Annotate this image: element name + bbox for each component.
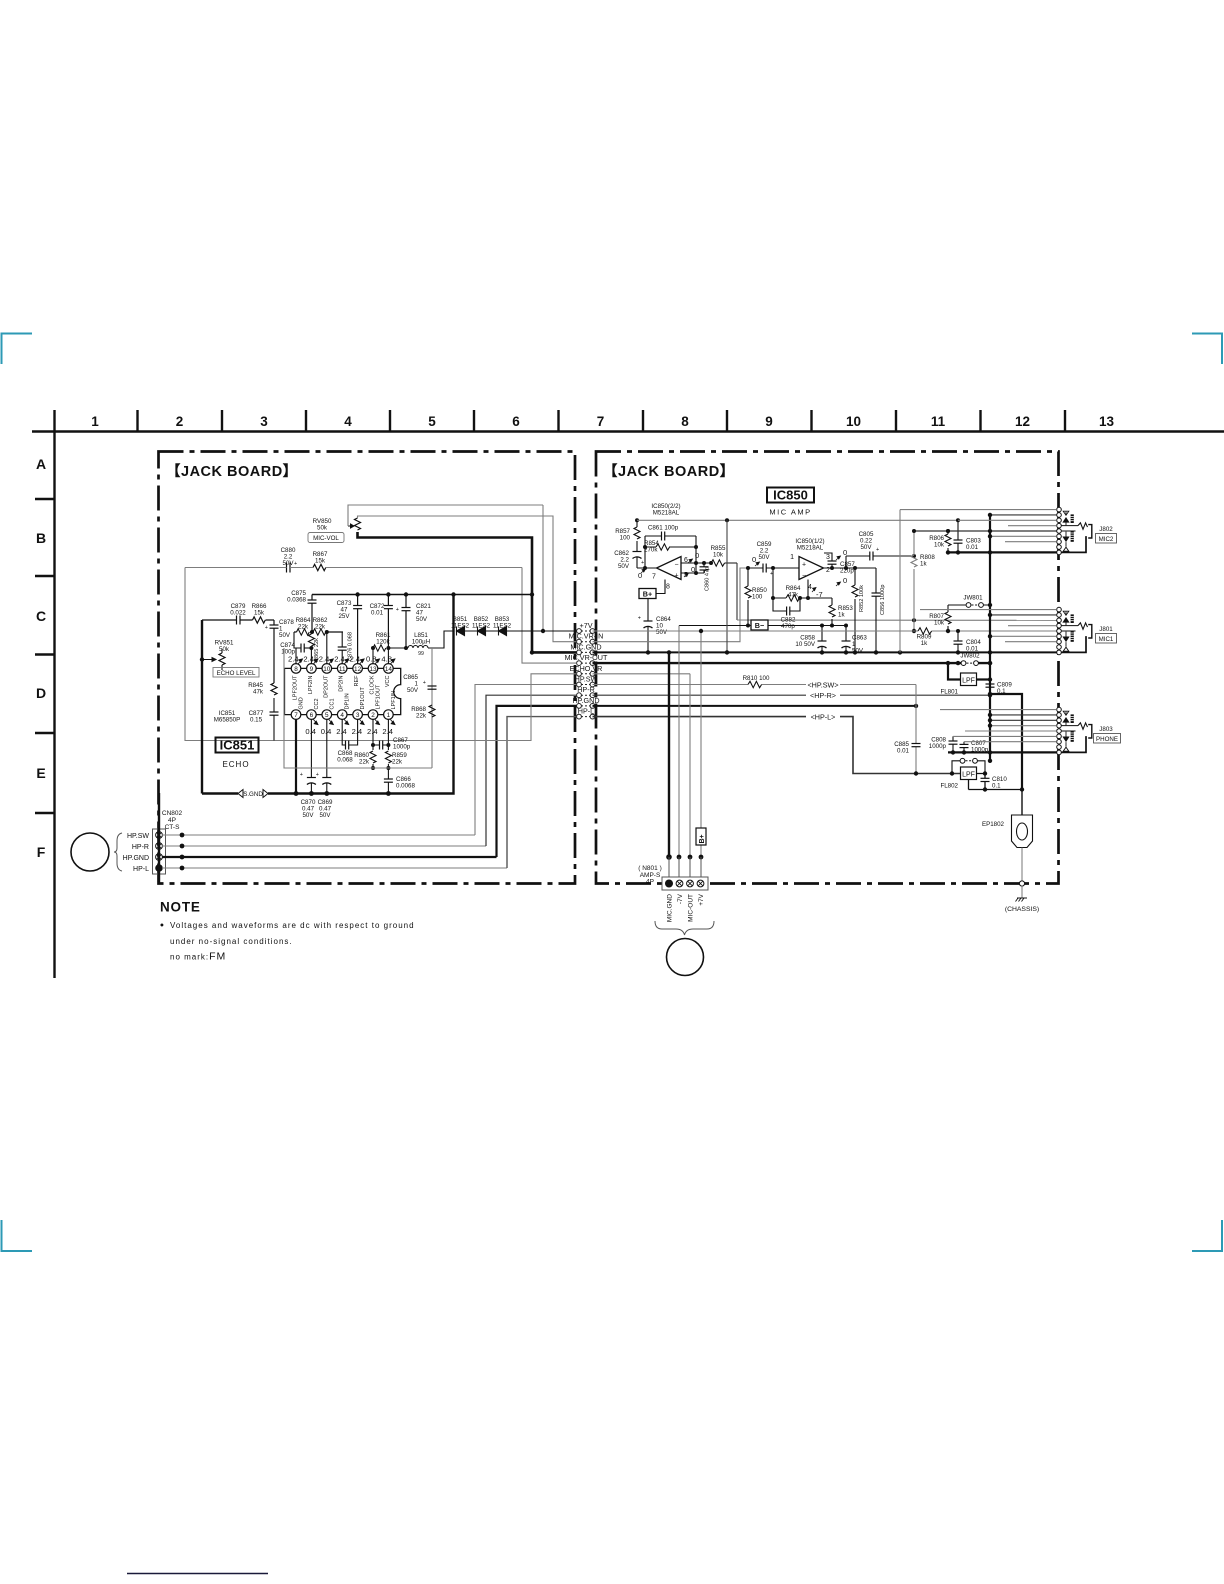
junction	[180, 866, 185, 871]
svg-text:47k: 47k	[788, 592, 799, 599]
svg-text:+: +	[294, 561, 297, 567]
capacitor C856 vertical	[875, 568, 877, 652]
FL802 low pass filter	[961, 767, 977, 780]
jack J803	[1057, 707, 1092, 754]
svg-text:LPF1OUT: LPF1OUT	[376, 684, 382, 709]
svg-text:CN802: CN802	[162, 810, 183, 817]
svg-text:50V: 50V	[416, 616, 428, 623]
IC850 designator box	[767, 488, 814, 503]
svg-text:+: +	[638, 616, 641, 622]
svg-text:0.4: 0.4	[305, 727, 316, 736]
capacitor C807	[963, 742, 965, 753]
svg-text:100µH: 100µH	[412, 639, 430, 646]
voltage arrows bottom	[313, 720, 395, 725]
capacitor C805	[846, 556, 914, 568]
wire MIC.VR-IN to C859	[593, 568, 749, 642]
resistor R854	[656, 544, 670, 550]
brace under N801	[655, 921, 714, 935]
svg-text:MIC.VR-IN: MIC.VR-IN	[569, 632, 604, 641]
junction	[180, 833, 185, 838]
svg-text:0.01: 0.01	[966, 646, 979, 653]
column ticks	[53, 410, 55, 432]
svg-text:CT-S: CT-S	[165, 824, 180, 831]
svg-text:Voltages and waveforms are dc: Voltages and waveforms are dc with respe…	[170, 921, 415, 930]
svg-text:J802: J802	[1099, 526, 1113, 533]
node HP.GND pads	[581, 705, 590, 707]
svg-text:+7V: +7V	[580, 621, 593, 630]
svg-text:JW802: JW802	[960, 653, 980, 660]
corner crop mark top-right	[1192, 334, 1222, 365]
capacitor C868 between pins 4-3	[342, 719, 357, 745]
svg-text:99: 99	[418, 651, 424, 657]
svg-text:+: +	[423, 680, 426, 686]
svg-text:C856 1000p: C856 1000p	[880, 585, 886, 615]
svg-text:LPF: LPF	[962, 772, 975, 779]
jack J802	[1057, 507, 1092, 554]
capacitor C863 electrolytic	[845, 626, 847, 642]
capacitor C879	[237, 616, 241, 625]
svg-text:4: 4	[344, 414, 352, 429]
svg-text:REF: REF	[354, 675, 360, 687]
svg-text:+: +	[300, 772, 303, 778]
pin voltage labels top	[288, 655, 392, 664]
resistor R806	[945, 531, 951, 552]
svg-text:100: 100	[752, 594, 763, 601]
svg-text:0.01: 0.01	[966, 544, 979, 551]
capacitor C874	[301, 644, 304, 653]
svg-text:0.022: 0.022	[230, 610, 246, 617]
S.GND flag	[238, 789, 268, 798]
wire B- bias row	[679, 625, 846, 627]
svg-text:1k: 1k	[920, 561, 927, 568]
svg-text:9: 9	[765, 414, 773, 429]
FL802 output and C810	[969, 774, 1023, 790]
svg-text:C861 100p: C861 100p	[648, 525, 679, 532]
svg-text:50k: 50k	[219, 646, 230, 653]
corner crop mark bottom-left	[2, 1220, 33, 1251]
svg-text:【JACK BOARD】: 【JACK BOARD】	[166, 463, 298, 480]
svg-text:D: D	[36, 685, 46, 701]
resistor R857	[634, 520, 640, 551]
capacitor C875	[311, 595, 313, 601]
svg-text:7: 7	[652, 574, 656, 581]
svg-text:2.4: 2.4	[303, 655, 314, 664]
resistor R852 vertical	[852, 568, 858, 652]
wire riser to +7V pad	[543, 505, 577, 631]
svg-text:11: 11	[931, 414, 946, 429]
svg-text:ECHO LEVEL: ECHO LEVEL	[217, 670, 256, 677]
capacitor C865 on right column	[428, 686, 437, 689]
svg-text:•: •	[160, 920, 164, 932]
wire diode row to +7V pad	[465, 630, 577, 632]
svg-text:0.1: 0.1	[997, 688, 1006, 695]
connector CN802 body	[153, 829, 166, 874]
resistor R865 vertical on pin9	[308, 634, 314, 646]
svg-text:+: +	[641, 560, 644, 566]
capacitor C866	[387, 768, 389, 779]
J802 sleeve ground row	[948, 551, 1057, 553]
svg-text:−: −	[674, 562, 678, 569]
svg-text:22k: 22k	[392, 759, 403, 766]
capacitor C878	[273, 620, 275, 625]
svg-text:11ES2: 11ES2	[493, 623, 512, 630]
svg-text:1000p: 1000p	[971, 747, 989, 754]
node +7V pads	[581, 630, 590, 632]
resistor R868 on right column	[429, 705, 435, 717]
svg-text:M65850P: M65850P	[214, 717, 241, 724]
node MIC.VR-OUT pads	[581, 662, 590, 664]
svg-text:LPF: LPF	[962, 678, 975, 685]
svg-text:1000p: 1000p	[929, 743, 947, 750]
J803 ground row	[948, 751, 1057, 753]
diode B852	[478, 627, 486, 636]
wire L851 to diode row	[428, 631, 453, 648]
J802 lead wires	[900, 510, 1057, 653]
svg-text:MIC-VOL: MIC-VOL	[313, 535, 339, 542]
svg-text:4: 4	[808, 584, 812, 591]
capacitor C860	[703, 563, 705, 573]
svg-text:HP-R: HP-R	[132, 844, 149, 851]
svg-text:50V: 50V	[279, 632, 291, 639]
svg-text:+: +	[674, 573, 678, 580]
wire HP.SW from CN802	[162, 834, 475, 836]
resistor R862	[313, 629, 326, 635]
IC851 designator box	[216, 738, 259, 753]
capacitor C857	[824, 553, 832, 568]
svg-text:B−: B−	[755, 621, 764, 630]
svg-text:B+: B+	[643, 590, 652, 599]
svg-text:2.4: 2.4	[336, 727, 347, 736]
svg-text:C: C	[36, 608, 46, 624]
HP.GND row	[593, 705, 917, 707]
FL801 low pass filter	[961, 673, 977, 686]
svg-text:HP.GND: HP.GND	[572, 696, 599, 705]
svg-text:<HP-L>: <HP-L>	[811, 713, 836, 722]
svg-text:8: 8	[666, 584, 670, 591]
capacitor C882	[773, 598, 800, 611]
riser MIC-OUT	[689, 674, 691, 857]
junction	[541, 629, 545, 633]
svg-text:LPF2IN: LPF2IN	[308, 675, 314, 694]
svg-text:+: +	[265, 625, 268, 631]
svg-text:+: +	[876, 547, 879, 553]
svg-text:50V: 50V	[282, 560, 294, 567]
pin voltage labels bottom	[305, 727, 393, 736]
svg-text:( N801 ): ( N801 )	[638, 865, 661, 872]
svg-text:+: +	[396, 607, 399, 613]
sub-bus wire	[294, 631, 343, 633]
svg-text:0.4: 0.4	[321, 727, 332, 736]
op-amp U850A (1/2)	[799, 557, 824, 580]
left JACK BOARD dash-dot border	[159, 452, 576, 884]
svg-text:14: 14	[385, 666, 393, 673]
svg-text:-7: -7	[816, 590, 823, 599]
svg-text:2.4: 2.4	[319, 655, 330, 664]
label B-	[751, 620, 768, 630]
capacitor C862 electrolytic	[633, 552, 642, 559]
svg-text:0.01: 0.01	[371, 610, 384, 617]
wire MIC1 signal row	[737, 619, 1057, 621]
J803 lead wires	[940, 709, 1057, 711]
svg-text:9: 9	[310, 666, 314, 673]
label ECHO LEVEL	[213, 668, 259, 678]
svg-text:MIC-OUT: MIC-OUT	[688, 894, 695, 922]
MIC.GND bus	[593, 651, 1057, 653]
wire pin8 to B+	[656, 580, 665, 594]
junction	[180, 855, 185, 860]
svg-text:FL801: FL801	[940, 689, 958, 696]
riser HP-L	[507, 717, 577, 868]
svg-text:2: 2	[176, 414, 184, 429]
svg-text:1k: 1k	[838, 612, 845, 619]
wire R861 to L851	[387, 647, 406, 649]
capacitor C873	[357, 595, 359, 606]
ground bus S.GND	[202, 595, 454, 794]
svg-text:50k: 50k	[317, 525, 328, 532]
svg-text:HP-L: HP-L	[578, 707, 594, 716]
svg-text:50V: 50V	[852, 648, 864, 655]
N801 pin 2	[676, 880, 683, 887]
capacitor C859	[763, 564, 766, 573]
wire HP-R from CN802	[162, 845, 486, 847]
svg-text:DP2OUT: DP2OUT	[323, 675, 329, 698]
pin stubs top	[296, 632, 388, 664]
resistor R808 vertical	[911, 531, 917, 631]
CN802 pin 4	[156, 832, 163, 839]
junction dots at connector	[666, 854, 672, 860]
svg-text:6: 6	[512, 414, 520, 429]
wire R855 down to MIC1 row	[736, 563, 738, 620]
svg-text:2.4: 2.4	[382, 727, 393, 736]
capacitor C876 vertical	[341, 632, 343, 647]
capacitor C867 between pins 2-1	[373, 719, 388, 750]
pin numbers	[294, 666, 392, 719]
right JACK BOARD dash-dot border	[596, 452, 1059, 884]
svg-text:C860 47p: C860 47p	[705, 567, 711, 591]
svg-text:−: −	[802, 573, 806, 580]
svg-text:under no-signal conditions.: under no-signal conditions.	[170, 937, 293, 946]
svg-text:0.01: 0.01	[897, 748, 910, 755]
resistor R867	[313, 564, 326, 570]
resistor R850	[745, 568, 751, 626]
jumper row above FL802	[952, 761, 985, 774]
svg-text:DP1OUT: DP1OUT	[360, 687, 366, 710]
svg-text:VCC: VCC	[385, 675, 391, 687]
riser HP.SW	[475, 685, 577, 836]
pin circles bottom row 7-1	[291, 710, 393, 720]
svg-text:MIC1: MIC1	[1099, 636, 1114, 643]
svg-text:MIC2: MIC2	[1099, 536, 1114, 543]
column numbers	[91, 414, 1114, 429]
svg-text:S.GND: S.GND	[243, 791, 263, 798]
resistor R864	[297, 629, 310, 635]
HP-L row	[593, 717, 961, 774]
chassis ground symbol	[1016, 898, 1028, 902]
wire pot top to MIC.VR-IN pad	[358, 516, 577, 642]
resistor R855	[696, 560, 737, 566]
diode B853	[499, 627, 507, 636]
svg-text:7: 7	[294, 712, 298, 719]
svg-text:LPF2OUT: LPF2OUT	[293, 675, 299, 700]
gray routing loop around IC	[284, 648, 432, 768]
svg-text:HP.SW: HP.SW	[575, 675, 598, 684]
voltage arrows top	[298, 659, 395, 664]
corner crop mark top-left	[2, 334, 33, 365]
svg-text:NOTE: NOTE	[160, 900, 201, 915]
HP-R row	[593, 694, 991, 696]
svg-text:1k: 1k	[921, 640, 928, 647]
wire row531 to J802	[914, 530, 1057, 532]
svg-text:47k: 47k	[253, 689, 264, 696]
svg-text:HP-R: HP-R	[577, 685, 595, 694]
svg-text:2.4: 2.4	[288, 655, 299, 664]
N801 pin 1 filled	[665, 880, 673, 888]
svg-text:5: 5	[428, 414, 436, 429]
svg-text:no mark:FM: no mark:FM	[170, 951, 226, 963]
capacitor C821 electrolytic	[405, 595, 407, 608]
svg-text:1000p: 1000p	[393, 744, 411, 751]
svg-text:270k: 270k	[644, 547, 658, 554]
svg-text:1: 1	[387, 712, 391, 719]
svg-text:F: F	[37, 844, 46, 860]
svg-text:4P: 4P	[168, 817, 176, 824]
wire HP-L from CN802	[162, 867, 507, 869]
svg-text:11ES2: 11ES2	[472, 623, 491, 630]
main thick vertical bus	[989, 516, 991, 761]
capacitor C808	[952, 736, 954, 752]
jumper JW801	[948, 604, 990, 606]
svg-text:【JACK BOARD】: 【JACK BOARD】	[603, 463, 735, 480]
resistor R860 vertical	[370, 751, 376, 763]
svg-text:IC851: IC851	[220, 738, 255, 753]
svg-text:J801: J801	[1099, 626, 1113, 633]
svg-text:J803: J803	[1099, 726, 1113, 733]
riser HP-R	[486, 695, 577, 846]
svg-text:R852 100k: R852 100k	[859, 585, 865, 612]
wire C880/R867 row	[185, 567, 522, 569]
svg-text:DP2IN: DP2IN	[339, 675, 345, 691]
node MIC.GND pads	[581, 651, 590, 653]
connector CN802 label	[162, 810, 183, 831]
resistor R866	[253, 617, 266, 623]
resistor R861	[373, 645, 386, 651]
jack J801	[1057, 607, 1092, 654]
svg-text:-7V: -7V	[677, 893, 684, 904]
wire op2 inputs	[637, 563, 704, 573]
svg-text:5: 5	[325, 712, 329, 719]
wire HP.GND from CN802	[162, 856, 497, 858]
pin names bottom row	[299, 684, 397, 709]
svg-text:13: 13	[1099, 414, 1115, 429]
svg-text:MIC.GND: MIC.GND	[667, 894, 674, 922]
svg-text:R865 22k: R865 22k	[314, 638, 320, 662]
capacitor C803	[957, 520, 959, 552]
op-amp U850B (2/2)	[657, 557, 682, 580]
svg-text:0.0368: 0.0368	[287, 597, 306, 604]
svg-text:ECHO.VR: ECHO.VR	[570, 664, 603, 673]
svg-text:0: 0	[843, 576, 847, 585]
svg-text:0.15: 0.15	[250, 717, 263, 724]
jumper JW802	[961, 661, 966, 666]
C885 column	[915, 685, 917, 774]
svg-text:0.8: 0.8	[366, 655, 377, 664]
svg-text:0.0068: 0.0068	[396, 783, 415, 790]
node ECHO.VR pads	[581, 673, 590, 675]
svg-text:B+: B+	[699, 834, 706, 843]
node HP-L pads	[581, 716, 590, 718]
grid header line	[32, 410, 1224, 978]
svg-text:50V: 50V	[407, 687, 419, 694]
feedback resistor R864	[773, 568, 832, 601]
svg-text:22k: 22k	[298, 624, 309, 631]
svg-text:E: E	[36, 765, 45, 781]
svg-text:0.1: 0.1	[992, 783, 1001, 790]
riser +7V	[700, 631, 702, 857]
svg-text:HP.SW: HP.SW	[127, 833, 149, 840]
top bus	[312, 594, 532, 596]
svg-text:HP-L: HP-L	[133, 866, 149, 873]
svg-text:13: 13	[369, 666, 377, 673]
svg-text:470p: 470p	[781, 623, 795, 630]
brace	[114, 833, 122, 871]
svg-text:PHONE: PHONE	[1096, 736, 1118, 743]
svg-text:2: 2	[371, 712, 375, 719]
svg-text:10: 10	[846, 414, 861, 429]
CN802 pin 3	[156, 843, 163, 850]
svg-text:1: 1	[790, 554, 794, 561]
node MIC.VR-IN pads	[581, 641, 590, 643]
capacitor C858 electrolytic	[821, 626, 823, 642]
svg-text:100: 100	[620, 535, 631, 542]
svg-text:2.4: 2.4	[352, 727, 363, 736]
left margin vertical rule	[53, 432, 55, 979]
resistor R859 vertical	[385, 751, 391, 763]
svg-text:3: 3	[826, 554, 830, 561]
svg-text:6: 6	[310, 712, 314, 719]
wire left gray loop to ECHO.VR pad	[185, 568, 577, 741]
svg-text:4: 4	[340, 712, 344, 719]
svg-text:2.4: 2.4	[334, 655, 345, 664]
svg-text:3: 3	[356, 712, 360, 719]
capacitor C872	[387, 595, 389, 606]
svg-text:25V: 25V	[338, 613, 350, 620]
bottom rule	[127, 1573, 268, 1575]
row ticks	[35, 498, 55, 500]
potentiometer RV850	[355, 518, 361, 530]
svg-text:12: 12	[354, 666, 362, 673]
wire pot wiper to +7V riser	[348, 505, 543, 526]
svg-text:LPF1IN: LPF1IN	[391, 691, 397, 710]
svg-text:7: 7	[597, 414, 605, 429]
HP.SW row with R810	[593, 684, 917, 686]
svg-text:50V: 50V	[618, 563, 630, 570]
node HP.SW pads	[581, 684, 590, 686]
CN802 stem vertical	[158, 793, 160, 884]
svg-text:15k: 15k	[254, 610, 265, 617]
svg-text:GND: GND	[299, 697, 305, 709]
svg-text:8: 8	[681, 414, 689, 429]
inter-board connection pads	[577, 629, 595, 719]
svg-text:10k: 10k	[934, 542, 945, 549]
wire sub-bus left drop	[294, 632, 301, 648]
CN802 pin 2	[156, 854, 163, 861]
svg-text:EP1802: EP1802	[982, 821, 1005, 828]
pin circles top row 8-14	[291, 664, 393, 674]
N801 pin 4	[697, 880, 704, 887]
label MIC-VOL	[308, 533, 344, 543]
svg-text:22k: 22k	[416, 713, 427, 720]
svg-text:IC850: IC850	[773, 488, 808, 503]
